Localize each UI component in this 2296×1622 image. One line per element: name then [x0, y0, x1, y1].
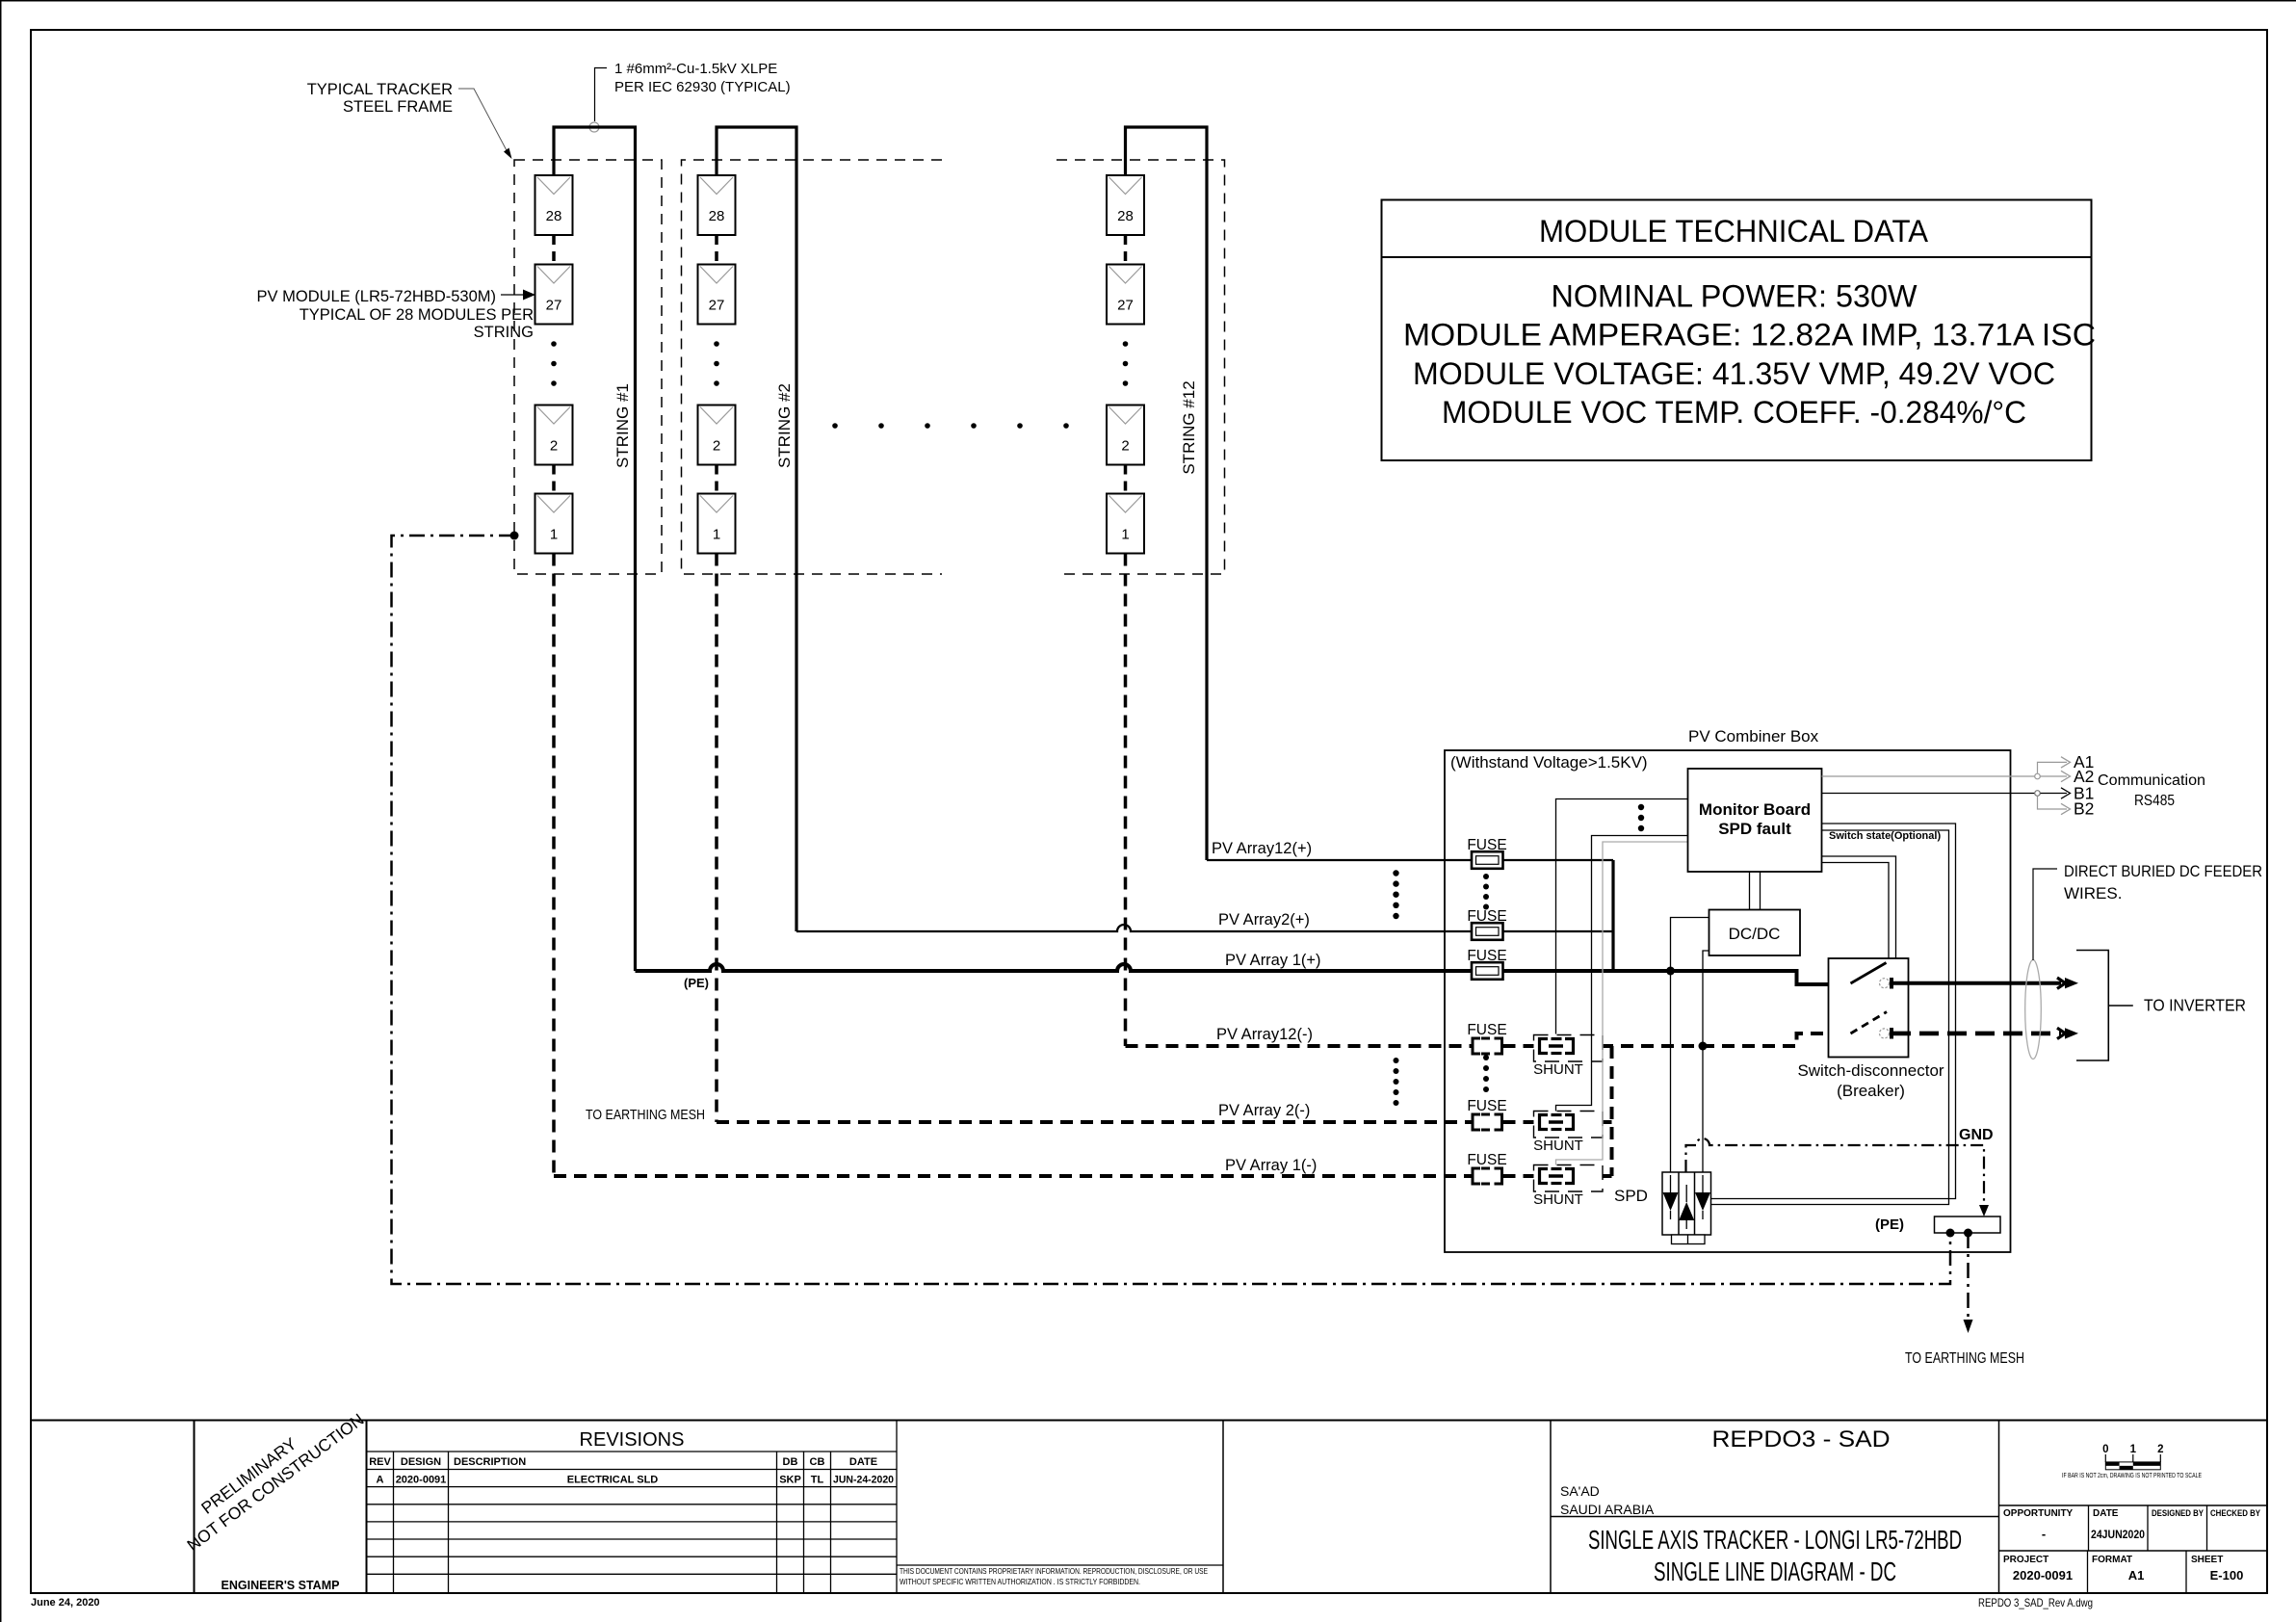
combiner box outline: [1445, 750, 2011, 1252]
project/format/sheet row: [1999, 1550, 2268, 1552]
PV module 28 string1: [535, 175, 573, 235]
wire: PV Array12(-) negative bus: [1126, 1033, 1848, 1046]
wire: module link 2-1 string1: [552, 465, 556, 494]
svg-text:1: 1: [713, 527, 720, 543]
wire: PV Array2(+) row with hop over string12 negative: [796, 925, 1613, 931]
stamp box: [194, 1421, 196, 1594]
PV module 2 string12: [1107, 405, 1144, 465]
svg-text:DIRECT BURIED DC FEEDER: DIRECT BURIED DC FEEDER: [2064, 862, 2262, 880]
scale bar: [2062, 1444, 2202, 1479]
wire: PE to earthing mesh: [1967, 1233, 1970, 1321]
svg-text:TYPICAL TRACKER: TYPICAL TRACKER: [307, 81, 453, 98]
svg-text:FUSE: FUSE: [1467, 1098, 1506, 1114]
svg-text:(Withstand Voltage>1.5KV): (Withstand Voltage>1.5KV): [1450, 753, 1648, 772]
svg-text:27: 27: [546, 298, 562, 314]
shunt S1 (PV Array12 -): [1533, 1035, 1603, 1079]
ellipsis dots string12: [1123, 341, 1129, 386]
arrow positive feeder: [2057, 978, 2078, 988]
svg-text:DATE: DATE: [2093, 1508, 2119, 1519]
svg-text:DESCRIPTION: DESCRIPTION: [454, 1456, 526, 1468]
arrow negative feeder: [2057, 1028, 2078, 1038]
switch state wires: [1822, 856, 1896, 958]
svg-text:SAUDI ARABIA: SAUDI ARABIA: [1560, 1502, 1655, 1517]
svg-text:PV Combiner Box: PV Combiner Box: [1688, 727, 1819, 746]
svg-text:WIRES.: WIRES.: [2064, 884, 2122, 903]
svg-text:June 24, 2020: June 24, 2020: [31, 1597, 100, 1609]
wire: PV Array 1(-) row: [554, 1174, 1612, 1178]
svg-text:28: 28: [1117, 208, 1134, 224]
svg-text:27: 27: [1117, 298, 1134, 314]
svg-text:DB: DB: [783, 1456, 798, 1468]
wire DC/DC positive input: [1671, 918, 1709, 1173]
svg-text:TO EARTHING MESH: TO EARTHING MESH: [586, 1108, 705, 1123]
svg-text:FORMAT: FORMAT: [2092, 1555, 2132, 1565]
sense wire shunt1 to monitor: [1556, 799, 1688, 1034]
svg-text:1: 1: [2130, 1444, 2137, 1455]
svg-text:PROJECT: PROJECT: [2003, 1555, 2048, 1565]
svg-text:-: -: [2042, 1527, 2046, 1541]
svg-text:SPD fault: SPD fault: [1718, 820, 1791, 838]
svg-text:REPDO 3_SAD_Rev A.dwg: REPDO 3_SAD_Rev A.dwg: [1978, 1596, 2093, 1609]
svg-text:SHUNT: SHUNT: [1533, 1191, 1583, 1208]
tracker frame dashed box string2 (open right): [682, 160, 943, 574]
svg-text:TO INVERTER: TO INVERTER: [2144, 996, 2246, 1015]
svg-text:REV: REV: [369, 1456, 391, 1468]
wire: module link 28-27 string2: [715, 235, 718, 265]
svg-text:1: 1: [1121, 527, 1129, 543]
SPD assembly: [1662, 1172, 1711, 1244]
svg-text:STEEL FRAME: STEEL FRAME: [343, 98, 453, 116]
svg-text:SINGLE LINE DIAGRAM - DC: SINGLE LINE DIAGRAM - DC: [1654, 1557, 1896, 1586]
ellipsis dots negative group (at fuses): [1483, 1055, 1489, 1092]
svg-text:TL: TL: [811, 1475, 824, 1486]
svg-text:1 #6mm²-Cu-1.5kV XLPE: 1 #6mm²-Cu-1.5kV XLPE: [614, 61, 777, 77]
node: frame earthing tap: [510, 532, 519, 540]
label: cable note 1 #6mm2: [614, 61, 791, 95]
fuse F4 dashed (PV Array12 -): [1467, 1022, 1506, 1054]
revision row A: [377, 1475, 894, 1486]
svg-text:DATE: DATE: [849, 1456, 877, 1468]
arrow to earthing mesh: [1964, 1320, 1973, 1333]
wire: PV Array12(+) row: [1207, 859, 1613, 861]
svg-text:TYPICAL OF 28 MODULES PER: TYPICAL OF 28 MODULES PER: [300, 306, 534, 324]
svg-text:SHUNT: SHUNT: [1533, 1061, 1583, 1078]
PV module 28 string12: [1107, 175, 1144, 235]
svg-text:JUN-24-2020: JUN-24-2020: [833, 1475, 894, 1486]
shunt S2 (PV Array 2 -): [1533, 1112, 1603, 1155]
ellipsis dots positive group (at fuses): [1483, 874, 1489, 910]
svg-text:Switch state(Optional): Switch state(Optional): [1829, 830, 1941, 842]
svg-text:PV Array12(+): PV Array12(+): [1212, 840, 1312, 857]
svg-text:FUSE: FUSE: [1467, 1152, 1506, 1168]
PV module 1 string12: [1107, 494, 1144, 554]
project title section: [1550, 1421, 1552, 1594]
wire: PV Array 1(+) positive bus with hops: [636, 964, 1848, 984]
svg-text:28: 28: [709, 208, 725, 224]
wire: module link 28-27 string1: [552, 235, 556, 265]
svg-text:28: 28: [546, 208, 562, 224]
attachment circle on string1 wire: [589, 122, 599, 132]
svg-text:FUSE: FUSE: [1467, 908, 1506, 925]
GND dash-dot wire with hop: [1686, 1138, 1985, 1210]
ellipsis dots between string2 and string12: [832, 423, 1069, 429]
wire: module link 2-1 string2: [715, 465, 718, 494]
svg-text:2: 2: [713, 438, 720, 455]
svg-text:CHECKED BY: CHECKED BY: [2210, 1508, 2260, 1518]
leader DIRECT BURIED: [2033, 869, 2057, 960]
labels A1 A2 B1 B2: [2074, 752, 2094, 819]
fuse F1 (PV Array12 +): [1467, 837, 1506, 869]
svg-text:SKP: SKP: [779, 1475, 801, 1486]
wire: string12 negative down: [1124, 554, 1128, 1047]
proprietary note box: [1222, 1421, 1224, 1594]
ellipsis dots string2: [714, 341, 719, 386]
svg-text:E-100: E-100: [2210, 1568, 2244, 1583]
wire: module link 28-27 string12: [1124, 235, 1128, 265]
svg-text:STRING #12: STRING #12: [1180, 380, 1198, 474]
PV module 2 string1: [535, 405, 573, 465]
PV module 1 string2: [698, 494, 736, 554]
svg-text:2: 2: [2157, 1444, 2163, 1455]
cable bundle ellipse: [2025, 960, 2042, 1060]
svg-text:A1: A1: [2128, 1568, 2145, 1583]
wire: string2 top interconnect: [717, 127, 796, 931]
svg-text:2: 2: [1121, 438, 1129, 455]
svg-text:FUSE: FUSE: [1467, 948, 1506, 964]
title block top line: [31, 1420, 2267, 1422]
wire: negative feeder out of switch: [1892, 1032, 2061, 1036]
svg-text:Monitor Board: Monitor Board: [1699, 800, 1811, 819]
SPD fault wires: [1711, 824, 1956, 1199]
wire DC/DC negative input: [1703, 951, 1709, 1172]
svg-text:SPD: SPD: [1614, 1187, 1648, 1205]
svg-text:MODULE AMPERAGE: 12.82A IMP, 1: MODULE AMPERAGE: 12.82A IMP, 13.71A ISC: [1403, 318, 2096, 353]
leader for TYPICAL TRACKER STEEL FRAME: [458, 89, 509, 154]
svg-text:IF BAR IS NOT 2cm, DRAWING IS: IF BAR IS NOT 2cm, DRAWING IS NOT PRINTE…: [2062, 1471, 2202, 1479]
svg-text:OPPORTUNITY: OPPORTUNITY: [2003, 1508, 2074, 1519]
switch-disconnector Q1: [1797, 958, 1944, 1100]
sense wire shunt3 to monitor (gray): [1556, 842, 1688, 1165]
svg-text:SHUNT: SHUNT: [1533, 1138, 1583, 1154]
svg-text:REPDO3 - SAD: REPDO3 - SAD: [1712, 1426, 1891, 1452]
svg-text:SHEET: SHEET: [2191, 1555, 2223, 1565]
PV module 28 string2: [698, 175, 736, 235]
svg-text:PV Array 2(-): PV Array 2(-): [1218, 1102, 1310, 1119]
svg-text:TO EARTHING MESH: TO EARTHING MESH: [1905, 1350, 2024, 1367]
node: PE bar tap 2: [1964, 1229, 1972, 1238]
svg-text:SA'AD: SA'AD: [1560, 1483, 1600, 1499]
stamp: PRELIMINARY NOT FOR CONSTRUCTION: [170, 1393, 367, 1556]
wire: string12 top interconnect: [1126, 127, 1208, 860]
comm wire B (black): [1822, 793, 2036, 795]
fuse F5 dashed (PV Array 2 -): [1467, 1098, 1506, 1130]
svg-text:CB: CB: [810, 1456, 825, 1468]
svg-text:NOMINAL POWER: 530W: NOMINAL POWER: 530W: [1552, 279, 1918, 314]
svg-text:FUSE: FUSE: [1467, 1022, 1506, 1038]
svg-text:STRING #2: STRING #2: [775, 383, 794, 468]
svg-text:27: 27: [709, 298, 725, 314]
fuse F3 (PV Array 1 +): [1467, 948, 1506, 980]
svg-text:MODULE VOC TEMP. COEFF. -0.284: MODULE VOC TEMP. COEFF. -0.284%/°C: [1442, 395, 2026, 430]
svg-text:PER IEC 62930 (TYPICAL): PER IEC 62930 (TYPICAL): [614, 79, 791, 95]
svg-text:RS485: RS485: [2134, 793, 2175, 809]
node: PE bar tap 1: [1946, 1229, 1955, 1238]
comm wire A (gray): [1822, 775, 2036, 777]
label: PV MODULE note: [257, 288, 535, 341]
svg-text:B2: B2: [2074, 799, 2094, 819]
sense wire shunt2 to monitor: [1556, 836, 1688, 1112]
tracker frame dashed box string1: [514, 160, 662, 574]
inverter bracket: [2076, 951, 2108, 1061]
PV module 27 string2: [698, 265, 736, 325]
svg-text:MODULE TECHNICAL DATA: MODULE TECHNICAL DATA: [1539, 214, 1928, 249]
svg-text:PV Array2(+): PV Array2(+): [1218, 911, 1310, 929]
svg-text:24JUN2020: 24JUN2020: [2091, 1528, 2145, 1541]
node: junction on positive bus: [1666, 967, 1675, 976]
svg-text:GND: GND: [1959, 1127, 1994, 1143]
svg-text:0: 0: [2102, 1444, 2108, 1455]
PE bar: [1935, 1216, 2001, 1233]
svg-text:MODULE VOLTAGE: 41.35V VMP, 49: MODULE VOLTAGE: 41.35V VMP, 49.2V VOC: [1413, 356, 2055, 391]
ellipsis dots string1: [551, 341, 557, 386]
wire: string1 negative down: [552, 554, 556, 1177]
svg-text:FUSE: FUSE: [1467, 837, 1506, 853]
PV module 27 string12: [1107, 265, 1144, 325]
wire: positive feeder out of switch: [1892, 981, 2061, 985]
svg-text:Switch-disconnector: Switch-disconnector: [1797, 1061, 1944, 1080]
svg-text:STRING: STRING: [474, 324, 534, 341]
svg-text:2: 2: [550, 438, 558, 455]
svg-text:(PE): (PE): [1875, 1216, 1904, 1233]
node: junction on negative bus: [1699, 1042, 1708, 1051]
leader for cable note: [595, 68, 608, 122]
ellipsis dots monitor inputs: [1638, 804, 1644, 831]
svg-text:PV Array12(-): PV Array12(-): [1216, 1026, 1313, 1043]
svg-text:PV Array 1(+): PV Array 1(+): [1225, 952, 1321, 969]
svg-text:ENGINEER'S STAMP: ENGINEER'S STAMP: [222, 1579, 340, 1592]
revisions table: [367, 1421, 898, 1594]
svg-text:ELECTRICAL SLD: ELECTRICAL SLD: [567, 1475, 659, 1486]
svg-text:DESIGNED BY: DESIGNED BY: [2152, 1508, 2204, 1518]
svg-text:Communication: Communication: [2098, 772, 2205, 789]
fuse F2 (PV Array2 +): [1467, 908, 1506, 940]
PV module 2 string2: [698, 405, 736, 465]
svg-text:THIS DOCUMENT CONTAINS PROPRIE: THIS DOCUMENT CONTAINS PROPRIETARY INFOR…: [900, 1566, 1208, 1576]
svg-text:A: A: [377, 1475, 384, 1486]
wire: earthing dash-dot run: [392, 536, 1951, 1284]
wire: negative collector vertical: [1610, 1046, 1614, 1176]
svg-text:STRING #1: STRING #1: [613, 383, 632, 468]
PV module 1 string1: [535, 494, 573, 554]
ellipsis dots negative group (left): [1394, 1058, 1399, 1106]
svg-text:PV Array 1(-): PV Array 1(-): [1225, 1157, 1317, 1174]
opportunity/date/designed/checked row: [1999, 1504, 2268, 1506]
svg-text:SINGLE AXIS TRACKER - LONGI LR: SINGLE AXIS TRACKER - LONGI LR5-72HBD: [1588, 1525, 1962, 1555]
svg-text:(Breaker): (Breaker): [1837, 1082, 1905, 1100]
fuse F6 dashed (PV Array 1 -): [1467, 1152, 1506, 1184]
leader arrow to module 27: [501, 294, 526, 296]
svg-text:PV MODULE (LR5-72HBD-530M): PV MODULE (LR5-72HBD-530M): [257, 288, 496, 305]
ellipsis dots positive group (left): [1393, 870, 1398, 919]
svg-text:WITHOUT SPECIFIC WRITTEN AUTHO: WITHOUT SPECIFIC WRITTEN AUTHORIZATION .…: [900, 1577, 1140, 1586]
svg-text:DC/DC: DC/DC: [1729, 925, 1781, 943]
wire: PV Array 2(-) row: [717, 1120, 1612, 1124]
svg-text:DESIGN: DESIGN: [401, 1456, 441, 1468]
wire: module link 2-1 string12: [1124, 465, 1128, 494]
svg-text:(PE): (PE): [684, 976, 709, 990]
svg-text:2020-0091: 2020-0091: [396, 1475, 447, 1486]
wire: string1 top interconnect: [554, 127, 636, 971]
wires monitor to DC/DC: [1749, 872, 1751, 910]
svg-text:1: 1: [550, 527, 558, 543]
tracker frame dashed box string12 (open left): [1057, 160, 1225, 574]
svg-text:2020-0091: 2020-0091: [2013, 1568, 2073, 1583]
monitor board U1: [1688, 769, 1822, 872]
svg-text:REVISIONS: REVISIONS: [580, 1429, 685, 1451]
wire: string2 negative down: [715, 554, 718, 1123]
PV module 27 string1: [535, 265, 573, 325]
label: TYPICAL TRACKER STEEL FRAME: [307, 81, 453, 116]
shunt S3 (PV Array 1 -): [1533, 1165, 1603, 1209]
DC/DC converter U2: [1709, 910, 1801, 956]
revisions headers: [369, 1456, 877, 1468]
arrow GND to PE bar: [1979, 1205, 1989, 1216]
